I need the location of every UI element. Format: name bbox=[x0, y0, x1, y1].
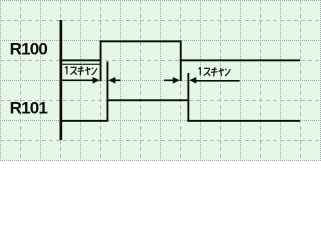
svg-text:R101: R101 bbox=[10, 99, 48, 118]
svg-text:R100: R100 bbox=[10, 39, 48, 58]
